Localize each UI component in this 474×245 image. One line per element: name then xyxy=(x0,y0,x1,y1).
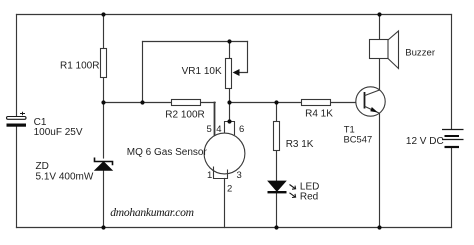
svg-text:R3 1K: R3 1K xyxy=(286,139,314,150)
svg-text:VR1 10K: VR1 10K xyxy=(182,66,222,77)
wire: node A horizontal rail through R2 xyxy=(104,102,216,104)
wire: sensor pin 2 to bottom rail xyxy=(224,179,226,228)
zener diode ZD xyxy=(36,158,113,183)
svg-text:Buzzer: Buzzer xyxy=(405,47,436,58)
wire: C1 to bottom rail xyxy=(16,127,18,228)
potentiometer VR1 xyxy=(182,59,240,89)
capacitor C1 xyxy=(7,112,83,139)
junction: node A / R1 xyxy=(101,100,105,104)
wire: node B rail to transistor base xyxy=(230,102,365,104)
svg-text:5: 5 xyxy=(207,124,212,135)
wire: VR1 bottom to sensor heater box xyxy=(229,89,231,122)
svg-text:100uF 25V: 100uF 25V xyxy=(34,127,83,138)
svg-text:6: 6 xyxy=(239,124,244,135)
wire: zener ZD to bottom rail xyxy=(103,170,105,228)
wire: transistor emitter to bottom rail xyxy=(379,113,381,227)
wire: VR1 top terminal stem xyxy=(229,42,231,59)
wire: sensor pin 5/4 vertical xyxy=(214,103,216,137)
svg-text:MQ 6 Gas Sensor: MQ 6 Gas Sensor xyxy=(127,147,208,158)
transistor T1 BC547 xyxy=(344,87,386,145)
junction: sensor heater box top xyxy=(227,119,231,123)
junction: bottom rail / emitter branch xyxy=(377,225,381,229)
wire: node A to zener ZD xyxy=(103,103,105,159)
wire: VR1 wiper loop right side xyxy=(236,42,248,73)
svg-text:dmohankumar.com: dmohankumar.com xyxy=(110,206,193,219)
junction: top rail / buzzer xyxy=(377,12,381,16)
junction: bottom rail / LED branch xyxy=(274,225,278,229)
wire: R1 branch from top rail xyxy=(103,15,105,49)
svg-text:3: 3 xyxy=(237,170,242,181)
svg-text:R4 1K: R4 1K xyxy=(305,109,333,120)
LED D1 red xyxy=(268,181,320,202)
wire: R3 branch from node B xyxy=(276,103,278,122)
wire: buzzer branch from top rail xyxy=(379,15,381,40)
wire: bottom ground rail xyxy=(17,227,452,229)
resistor R2 xyxy=(165,100,204,121)
svg-text:4: 4 xyxy=(216,124,221,135)
junction: node B / VR1 bottom xyxy=(227,100,231,104)
battery B1 12V DC xyxy=(406,130,464,148)
wire: LED to bottom rail xyxy=(276,193,278,228)
wire: R1 to node A rail xyxy=(103,78,105,103)
wire: right branch top rail to battery xyxy=(451,15,453,130)
junction: node B / R3 xyxy=(274,100,278,104)
wire: buzzer to transistor collector xyxy=(379,59,381,91)
svg-text:1: 1 xyxy=(207,170,212,181)
svg-text:R2 100R: R2 100R xyxy=(165,109,204,120)
wire: VR1 top horizontal xyxy=(143,41,248,43)
svg-text:5.1V 400mW: 5.1V 400mW xyxy=(36,171,94,182)
svg-text:Red: Red xyxy=(300,191,318,202)
wire: battery to bottom rail xyxy=(451,147,453,227)
svg-text:12 V DC: 12 V DC xyxy=(406,136,444,147)
junction: VR1 top wire / stem xyxy=(227,39,231,43)
svg-text:ZD: ZD xyxy=(36,161,49,172)
junction: node A / VR1 left leg xyxy=(140,100,144,104)
resistor R4 xyxy=(302,100,334,120)
wire: VR1 left leg up from node A xyxy=(142,42,144,103)
junction: bottom rail / zener branch xyxy=(101,225,105,229)
svg-text:2: 2 xyxy=(227,184,232,195)
resistor R3 xyxy=(274,122,314,151)
resistor R1 xyxy=(60,49,107,78)
svg-text:BC547: BC547 xyxy=(344,134,373,145)
wire: top supply rail xyxy=(17,14,452,16)
buzzer BZ1 xyxy=(370,31,436,69)
wire: R3 to LED xyxy=(276,151,278,182)
wire: left branch from top rail to C1 xyxy=(16,15,18,117)
svg-text:R1 100R: R1 100R xyxy=(60,61,99,72)
junction: top rail / R1 xyxy=(101,12,105,16)
gas sensor MQ6 xyxy=(127,122,245,179)
